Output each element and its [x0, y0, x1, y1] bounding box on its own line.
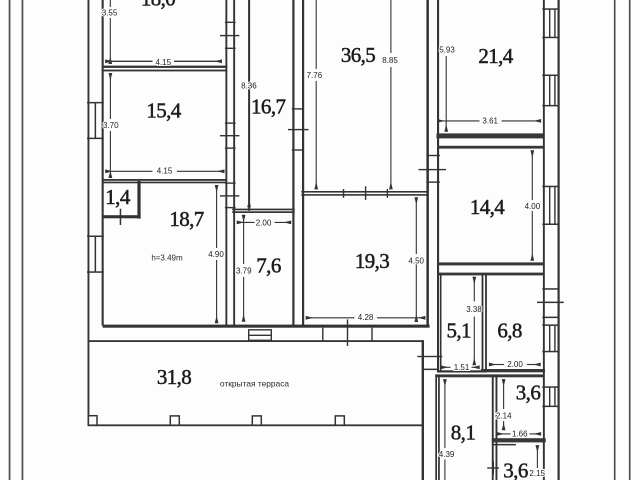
window R1 bottom sill — [542, 37, 558, 39]
dimension line 4.39 room 8,1 — [444, 380, 446, 448]
svg-text:1.51: 1.51 — [454, 363, 470, 372]
room 5,1 bottom wall — [438, 370, 488, 372]
door tick right on 36,5 bottom wall — [387, 189, 388, 198]
dimension line 2.15 lower 3,6 — [536, 446, 538, 468]
svg-text:4.39: 4.39 — [439, 450, 455, 459]
svg-text:7.76: 7.76 — [307, 71, 323, 80]
door D4 top sill — [292, 108, 304, 109]
svg-text:6,8: 6,8 — [497, 318, 522, 342]
door D2 bottom sill — [225, 147, 236, 148]
svg-text:5.93: 5.93 — [439, 45, 455, 54]
door D1 cross tick — [220, 35, 240, 36]
room 1,4 door tick — [120, 209, 122, 225]
window R4 top sill — [542, 324, 558, 326]
window R5 top sill — [542, 386, 558, 388]
svg-text:4.28: 4.28 — [358, 313, 374, 322]
door D1 top sill — [225, 22, 236, 23]
room 1,4 right wall — [137, 181, 140, 219]
room 21,4 bottom wall — [437, 133, 545, 138]
exterior wall right inner face — [543, 0, 545, 480]
dimension line 3.79 room 7,6 — [243, 215, 245, 264]
dimension line 4.15 room 15,4 — [106, 170, 153, 172]
dimension line 3.61 room 21,4 — [438, 120, 480, 122]
svg-text:4.50: 4.50 — [408, 256, 424, 265]
svg-text:4.15: 4.15 — [157, 167, 173, 176]
dimension line 2.00 room 6,8 — [489, 364, 504, 366]
terrace post 4 — [335, 416, 344, 425]
door D5 bottom sill — [426, 181, 440, 182]
svg-text:открытая терраса: открытая терраса — [220, 379, 289, 389]
wall between 5,1 and 6,8 left line — [482, 273, 484, 371]
window R2 bottom sill — [542, 105, 558, 107]
door D2 cross tick — [220, 135, 240, 136]
wall right of 18,0 and 15,4 inner line — [225, 0, 227, 326]
dimension line 4.28 room 19,3 — [306, 317, 354, 319]
svg-text:3.79: 3.79 — [236, 266, 252, 275]
porch step box below 7,6 — [249, 330, 272, 341]
door D3 bottom sill — [225, 207, 236, 208]
dimension arrow 8.36 room 16,7 — [248, 92, 250, 207]
dimension line 1.66 room 3,6 — [497, 433, 510, 435]
svg-text:18,0: 18,0 — [141, 0, 175, 11]
wall between 36,5 and 21,4 right line — [437, 0, 439, 373]
window R3 pane line a — [549, 186, 550, 224]
svg-text:21,4: 21,4 — [478, 44, 513, 68]
window L1 top sill — [87, 102, 104, 104]
dimension line 2.14 room 3,6 — [503, 380, 505, 409]
room 3,6 lower door sill line — [493, 444, 516, 446]
dimension line 1.51 — [441, 366, 450, 368]
dimension line 3.38 room 5,1 — [473, 277, 475, 301]
dimension line 7.76 — [315, 0, 317, 189]
fence right inner line — [614, 0, 616, 480]
window L1 mullion — [95, 103, 97, 139]
dimension line 8.85 room 36,5 — [390, 0, 392, 189]
porch door cross tick B — [347, 319, 348, 346]
porch bay tick A — [322, 328, 323, 342]
terrace corner post — [88, 416, 97, 426]
svg-text:3,6: 3,6 — [516, 381, 541, 405]
corridor wall left of 16,7 — [248, 0, 250, 211]
svg-text:3,6: 3,6 — [503, 459, 528, 480]
room 7,6 top wall lower line — [232, 211, 295, 213]
svg-text:5,1: 5,1 — [446, 319, 471, 343]
window L2 mullion — [95, 236, 97, 272]
entry niche door tick — [417, 356, 442, 357]
exterior wall right outer face — [558, 0, 560, 480]
room 6,8 bottom wall — [481, 369, 545, 372]
svg-text:h=3.49m: h=3.49m — [151, 254, 183, 263]
svg-text:2.00: 2.00 — [256, 218, 272, 227]
door cross tick on 36,5 bottom wall — [365, 186, 366, 200]
room 5,1 left wall — [440, 273, 442, 371]
window R1 top sill — [542, 8, 558, 10]
room 8,1 left wall inner line — [438, 374, 440, 480]
wall between 16,7 and 36,5 right line — [302, 0, 304, 326]
svg-text:3.55: 3.55 — [102, 9, 118, 18]
dimension line 4.90 room 18,7 — [216, 186, 218, 249]
svg-text:2.14: 2.14 — [496, 411, 512, 420]
window R2 pane line a — [549, 75, 550, 105]
dimension line 5.93 room 21,4 — [445, 56, 447, 131]
room 8,1 and 3,6 top wall — [435, 374, 544, 377]
window R3 top sill — [542, 186, 558, 188]
room 14,4 top wall — [438, 146, 545, 149]
dimension line 4.50 room 19,3 — [415, 198, 417, 254]
terrace top edge — [88, 340, 424, 342]
door tick left on 36,5 bottom wall — [343, 189, 344, 198]
svg-text:3.70: 3.70 — [103, 121, 119, 130]
svg-text:2.15: 2.15 — [529, 469, 545, 478]
door R cross tick — [537, 302, 564, 304]
door D5 top sill — [426, 155, 440, 156]
terrace post 3 — [252, 416, 261, 425]
room 36,5 bottom wall upper line — [301, 191, 429, 193]
dimension line 4.00 room 14,4 — [531, 151, 533, 200]
porch bay tick C — [371, 328, 372, 342]
window L2 top sill — [87, 236, 104, 238]
window R3 pane line b — [554, 186, 555, 224]
door D3 top sill — [225, 182, 236, 183]
entry niche bottom line — [423, 369, 438, 371]
door R bottom sill — [542, 317, 558, 319]
window L1 bottom sill — [87, 138, 104, 140]
window R2 top sill — [542, 75, 558, 77]
svg-text:36,5: 36,5 — [341, 43, 375, 67]
window R5 pane line b — [554, 387, 555, 406]
svg-text:4.15: 4.15 — [156, 58, 172, 67]
room 1,4 bottom wall — [103, 215, 141, 218]
window R4 pane line a — [549, 325, 550, 351]
svg-text:1,4: 1,4 — [105, 185, 131, 209]
door R top sill — [542, 288, 558, 290]
door D4 bottom sill — [292, 149, 304, 150]
svg-text:8.36: 8.36 — [241, 82, 257, 91]
terrace bottom edge — [88, 424, 424, 426]
room 8,1 right wall — [492, 374, 494, 480]
window R5 bottom sill — [542, 406, 558, 408]
dimension line 3.55 room 18,0 — [109, 0, 111, 64]
fence left inner line — [22, 0, 24, 480]
wall between 36,5 and 21,4 left line — [426, 0, 429, 326]
window R3 bottom sill — [542, 224, 558, 226]
door D2 top sill — [225, 122, 236, 123]
exterior wall left outer face — [88, 0, 90, 425]
wall between rooms 18,0 and 15,4 lower line — [103, 70, 228, 72]
window R4 pane line b — [554, 325, 555, 351]
svg-text:4.90: 4.90 — [208, 250, 224, 259]
house bottom wall — [103, 325, 430, 328]
window R1 pane line a — [549, 9, 550, 37]
room 3,6 left wall — [496, 374, 498, 480]
room 7,6 top wall upper line — [232, 209, 295, 211]
terrace right wall — [422, 340, 424, 480]
svg-text:7,6: 7,6 — [256, 254, 281, 278]
dimension line 4.15 room 18,0 — [106, 60, 222, 62]
lower 3,6 door tick vertical — [493, 461, 495, 474]
wall between 16,7 and 36,5 left line — [292, 0, 294, 326]
svg-text:2.00: 2.00 — [507, 360, 523, 369]
svg-text:8,1: 8,1 — [451, 421, 476, 445]
svg-text:15,4: 15,4 — [146, 99, 181, 123]
dimension line 3.70 room 15,4 — [109, 74, 111, 120]
door D5 cross tick — [419, 169, 447, 170]
door D1 bottom sill — [225, 48, 236, 49]
wall between rooms 18,0 and 15,4 upper line — [103, 66, 228, 68]
window R5 pane line a — [549, 387, 550, 406]
window R1 pane line b — [554, 9, 555, 37]
fence right outer line — [629, 0, 631, 480]
terrace post 2 — [170, 416, 179, 425]
fence left outer line — [9, 0, 11, 480]
svg-text:1.66: 1.66 — [512, 430, 528, 439]
svg-text:19,3: 19,3 — [355, 249, 389, 273]
wall between 15,4 and 18,7 lower line — [103, 182, 227, 184]
dimension line 2.00 room 7,6 — [237, 221, 254, 223]
svg-text:4.00: 4.00 — [525, 202, 541, 211]
window R4 bottom sill — [542, 351, 558, 353]
svg-text:8.85: 8.85 — [382, 56, 398, 65]
corridor wall above 5,1 and 6,8 — [438, 273, 545, 276]
window L2 bottom sill — [87, 271, 104, 273]
window R2 pane line b — [554, 75, 555, 105]
room 14,4 bottom wall — [438, 262, 545, 265]
svg-text:31,8: 31,8 — [157, 365, 191, 389]
exterior wall left inner face — [102, 0, 104, 326]
door D4 cross tick — [288, 129, 309, 130]
wall between 5,1 and 6,8 right line — [485, 273, 487, 371]
svg-text:3.38: 3.38 — [466, 305, 482, 314]
lower 3,6 door tick horizontal — [487, 467, 499, 468]
dimension lines group — [106, 0, 541, 480]
svg-text:14,4: 14,4 — [470, 195, 505, 219]
svg-text:18,7: 18,7 — [169, 207, 203, 231]
room 36,5 bottom wall lower line — [301, 194, 429, 196]
svg-text:3.61: 3.61 — [482, 116, 498, 125]
door D3 cross tick — [220, 195, 240, 196]
svg-text:16,7: 16,7 — [251, 94, 285, 118]
porch step mid line — [249, 335, 272, 336]
wall between 15,4 and 18,7 upper line — [103, 179, 227, 181]
wall right of 18,0 and 15,4 outer line — [233, 0, 235, 326]
room 3,6 bottom wall — [492, 438, 546, 442]
room 8,1 left wall outer line — [435, 374, 437, 480]
